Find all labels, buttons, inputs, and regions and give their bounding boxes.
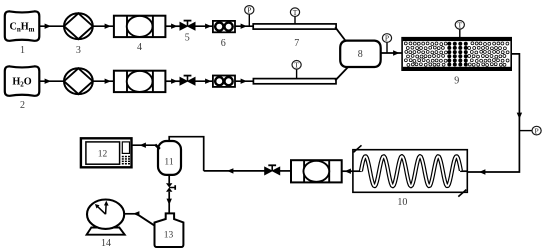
svg-text:13: 13 <box>164 231 174 241</box>
svg-text:1: 1 <box>20 45 25 56</box>
svg-text:P: P <box>247 6 251 15</box>
svg-text:9: 9 <box>454 76 459 87</box>
svg-text:6: 6 <box>221 38 226 49</box>
svg-text:T: T <box>458 21 463 30</box>
svg-text:10: 10 <box>397 197 407 208</box>
svg-text:T: T <box>294 61 299 70</box>
svg-text:3: 3 <box>76 45 81 56</box>
svg-text:11: 11 <box>164 158 173 168</box>
svg-text:2: 2 <box>20 100 25 111</box>
svg-text:8: 8 <box>358 49 363 60</box>
svg-text:P: P <box>535 126 539 135</box>
svg-text:5: 5 <box>185 33 190 44</box>
svg-text:T: T <box>293 8 298 17</box>
svg-text:7: 7 <box>294 38 299 49</box>
svg-text:P: P <box>385 34 389 43</box>
svg-text:14: 14 <box>101 238 111 249</box>
svg-text:12: 12 <box>98 150 108 160</box>
svg-text:4: 4 <box>137 42 142 53</box>
